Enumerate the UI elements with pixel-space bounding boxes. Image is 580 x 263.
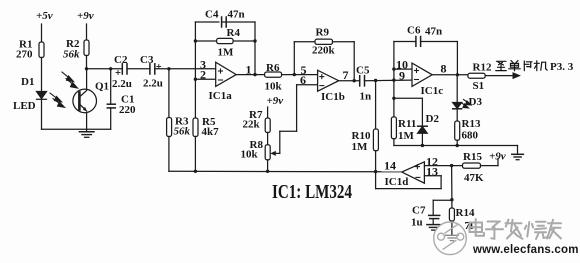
wire C6 left vertical <box>393 42 395 99</box>
label C3 value 2.2u <box>143 78 163 90</box>
label R6 10k <box>265 62 283 93</box>
svg-text:56k: 56k <box>174 126 191 138</box>
svg-text:R6: R6 <box>266 62 280 74</box>
wire pin12 down to C7/R14 <box>451 166 453 200</box>
capacitor C2 <box>122 64 127 74</box>
svg-text:R12: R12 <box>473 62 492 74</box>
pin 7 label <box>343 68 349 82</box>
wire R4 row left <box>195 40 216 42</box>
pin 14 label <box>384 159 396 173</box>
resistor R13 <box>455 121 460 140</box>
resistor R1 <box>39 42 44 58</box>
label C4 47n <box>205 9 245 21</box>
wire Q1 collector up <box>86 69 88 89</box>
wire C1 top <box>110 69 112 104</box>
wire feedback loop pin14 to pin13 <box>376 172 442 189</box>
label R15 47K <box>463 151 484 184</box>
capacitor C3 <box>150 64 155 74</box>
wire left ground rail <box>42 128 111 130</box>
LED D3 <box>453 75 462 109</box>
wm glyph 子 <box>486 222 503 239</box>
wire R9 row right <box>333 41 355 43</box>
wire D2 drop <box>421 98 423 126</box>
phototransistor Q1 <box>73 89 97 113</box>
svg-text:47K: 47K <box>464 172 484 184</box>
node junction R8 rail <box>266 170 269 173</box>
node junction R10/IC1d output <box>374 170 377 173</box>
glyph 单 <box>509 61 521 71</box>
label C5 value 1n <box>360 91 372 103</box>
label IC1: LM324 <box>272 181 352 203</box>
label R12 <box>473 62 492 74</box>
wire C6 right vertical <box>456 42 458 75</box>
svg-text:2.2u: 2.2u <box>112 78 132 90</box>
svg-text:1M: 1M <box>352 141 369 153</box>
resistor R15 <box>463 163 481 168</box>
label S1 <box>473 80 485 92</box>
wire C3 to pin3 <box>155 68 216 70</box>
node junction output/C6/D3 <box>456 73 459 76</box>
ground right <box>512 146 524 160</box>
wire main signal line <box>87 68 122 70</box>
node junction R10 tap <box>374 79 377 82</box>
label IC1a <box>209 90 233 102</box>
label IC1b <box>321 91 345 103</box>
label +9v right <box>489 151 506 163</box>
wm glyph 电 <box>470 219 485 236</box>
watermark url text <box>472 244 579 256</box>
wire R10 to bottom rail <box>375 151 377 172</box>
svg-text:D2: D2 <box>426 113 440 125</box>
wire R2 to collector node <box>86 56 88 69</box>
node junction R2/Q1 <box>85 67 88 70</box>
wire C5 to pin9 <box>365 79 413 82</box>
svg-text:www.elecfans.com: www.elecfans.com <box>472 244 579 256</box>
wire R9 right vertical <box>353 42 355 81</box>
svg-text:D3: D3 <box>469 96 483 108</box>
svg-text:+9v: +9v <box>489 151 506 163</box>
node junction pin2/feedback <box>194 78 197 81</box>
wm glyph 发 <box>506 220 523 239</box>
op-amp IC1d (points left) <box>402 162 425 183</box>
svg-text:1n: 1n <box>360 91 372 103</box>
wire R3 drop <box>168 69 170 118</box>
wm glyph 友 <box>547 220 561 239</box>
wire R5 drop from pin2 <box>194 79 196 118</box>
node +9v label <box>77 10 94 22</box>
svg-text:LED: LED <box>13 100 36 112</box>
svg-text:R4: R4 <box>227 27 241 39</box>
wire R9 left vertical <box>293 42 295 75</box>
label R2 56k <box>63 38 80 61</box>
node junction pin10/vertical <box>392 67 395 70</box>
capacitor C1 <box>107 104 115 108</box>
label R8 10k <box>241 139 264 161</box>
svg-text:1M: 1M <box>398 130 415 142</box>
label R4 value 1M <box>218 47 235 59</box>
pin 13 label <box>426 164 438 178</box>
wire IC1b output <box>339 80 360 82</box>
resistor R14 <box>449 208 454 221</box>
label R5 4k7 <box>202 116 220 138</box>
wire +5v to R1 <box>41 24 43 42</box>
wire C4 row <box>195 21 255 23</box>
wire R10 drop <box>375 81 377 130</box>
diode D2 <box>418 126 428 133</box>
svg-text:1u: 1u <box>411 217 423 229</box>
wire R6 to pin5 <box>282 74 318 76</box>
D3 light arrows <box>461 100 471 109</box>
node junction R9 right leg <box>353 79 356 82</box>
pin 10 label <box>396 58 408 72</box>
resistor R3 <box>167 118 172 137</box>
resistor R9 <box>315 39 333 44</box>
label R9 220k <box>312 27 336 57</box>
wire C6 row right <box>421 41 458 43</box>
wire +9v to R2 <box>86 24 88 40</box>
label R14 value <box>456 207 475 232</box>
svg-text:P3. 3: P3. 3 <box>550 61 574 73</box>
svg-text:D1: D1 <box>21 76 34 88</box>
wire R12 to arrow <box>485 75 513 77</box>
label R10 1M <box>352 130 371 153</box>
wire bottom rail / IC1d output line <box>169 170 402 173</box>
capacitor C4 <box>220 17 227 27</box>
label C2 <box>114 54 128 66</box>
wire R14 down <box>451 221 453 235</box>
pin 9 label <box>399 68 405 82</box>
label C2 polarity + <box>116 71 120 75</box>
wire R3 to bottom rail <box>168 137 170 172</box>
svg-text:10k: 10k <box>265 81 283 93</box>
svg-text:+9v: +9v <box>267 95 284 107</box>
svg-text:8: 8 <box>441 62 447 76</box>
resistor R10 <box>373 129 378 151</box>
svg-text:C3: C3 <box>140 54 154 66</box>
watermark text 电子发烧友 <box>470 219 562 239</box>
wire R11 to ground rail <box>393 139 395 146</box>
label C3 <box>140 54 154 66</box>
pin 1 label <box>246 63 252 77</box>
svg-text:270: 270 <box>16 49 33 61</box>
node junction R3 tap <box>167 67 170 70</box>
op-amp IC1b <box>318 70 339 91</box>
wire IC1a output <box>236 74 264 76</box>
node junction R13 rail <box>456 144 459 147</box>
svg-text:R9: R9 <box>316 27 330 39</box>
wire pin2 line <box>195 78 215 80</box>
wire R1 to D1 <box>41 58 43 92</box>
label R7 22k <box>243 109 263 131</box>
glyph 至 <box>496 61 506 70</box>
node junction D2 rail <box>421 144 424 147</box>
pin 12 label <box>426 154 438 168</box>
wire C1 bottom <box>110 108 112 129</box>
node junction output/feedback <box>253 73 256 76</box>
label C3 polarity + <box>157 65 161 69</box>
wire R13 to rail <box>456 140 458 145</box>
wire R4 row right <box>233 40 255 42</box>
label C1 220 <box>119 94 136 116</box>
pin 5 label <box>301 63 307 77</box>
pin 3 label <box>200 57 206 71</box>
capacitor C6 <box>416 37 421 47</box>
svg-text:IC1a: IC1a <box>209 90 233 102</box>
wiper arrow into R8 <box>270 151 276 156</box>
svg-text:R15: R15 <box>463 151 482 163</box>
resistor R5 <box>193 118 198 137</box>
wire C7 arm <box>433 200 452 215</box>
svg-text:IC1: LM324: IC1: LM324 <box>272 181 352 203</box>
wire D1 to ground rail <box>41 99 43 129</box>
resistor R6 <box>265 72 282 77</box>
resistor R7 <box>265 107 270 133</box>
svg-text:4k7: 4k7 <box>202 126 220 138</box>
label to-MCU Chinese text 至单片机P3. 3 <box>496 61 547 71</box>
wire feedback left vertical <box>194 22 196 79</box>
resistor R8 <box>265 145 270 160</box>
svg-text:1M: 1M <box>218 47 235 59</box>
capacitor C5 <box>360 76 365 86</box>
label IC1d <box>385 176 409 188</box>
glyph 机 <box>534 61 547 71</box>
resistor R4 <box>217 38 234 43</box>
svg-text:S1: S1 <box>473 80 485 92</box>
svg-text:56k: 56k <box>63 49 80 61</box>
pin 8 label <box>441 62 447 76</box>
label Q1 <box>95 81 109 93</box>
ground under C7 <box>427 219 440 231</box>
wire pin12 line <box>424 165 462 167</box>
svg-text:IC1d: IC1d <box>385 176 409 188</box>
label C6 47n <box>407 25 442 38</box>
node junction R4 row left <box>194 39 197 42</box>
wire pin10 line <box>394 68 412 70</box>
pin 2 label <box>200 68 206 82</box>
wm glyph 烧 <box>525 222 547 239</box>
svg-text:220k: 220k <box>312 45 336 57</box>
wire ground rail right section <box>394 145 518 147</box>
resistor R11 <box>391 117 396 139</box>
wire feedback right vertical <box>254 22 256 75</box>
svg-text:680: 680 <box>462 130 479 142</box>
watermark logo circle <box>434 222 467 255</box>
node junction R11 row <box>392 97 395 100</box>
wire R9 row left <box>294 41 315 43</box>
node junction C1 tap <box>109 67 112 70</box>
label C7 1u <box>411 205 426 229</box>
svg-text:220: 220 <box>119 104 136 116</box>
Q1 light arrows <box>62 72 78 88</box>
svg-text:14: 14 <box>384 159 396 173</box>
label D3 <box>469 96 483 108</box>
svg-text:IC1c: IC1c <box>421 85 444 97</box>
wire D2 to ground rail <box>421 133 423 145</box>
label R13 680 <box>462 118 481 142</box>
svg-text:C6: C6 <box>407 25 421 37</box>
svg-text:+9v: +9v <box>77 10 94 22</box>
svg-text:IC1b: IC1b <box>321 91 345 103</box>
output arrowhead to MCU <box>513 72 522 79</box>
svg-text:2.2u: 2.2u <box>143 78 163 90</box>
op-amp IC1a <box>216 62 237 86</box>
wire R11 drop <box>393 98 395 117</box>
node +5v label <box>36 10 53 22</box>
D1 light arrows <box>50 93 65 107</box>
label R1 270 <box>16 39 33 61</box>
wire R15 to +9v terminal <box>481 159 499 166</box>
svg-text:C7: C7 <box>412 205 426 217</box>
wire IC1c output <box>432 74 468 76</box>
svg-text:Q1: Q1 <box>95 81 109 93</box>
node junction R5 rail <box>194 170 197 173</box>
ground under Q1 <box>79 129 94 137</box>
svg-text:C5: C5 <box>356 65 370 77</box>
node junction R9 left leg <box>293 73 296 76</box>
node junction pin9/vertical <box>392 78 395 81</box>
label D2 <box>426 113 440 125</box>
label +9v above R7 <box>267 95 284 107</box>
svg-text:C2: C2 <box>114 54 128 66</box>
svg-text:22k: 22k <box>243 119 261 131</box>
label C5 <box>356 65 370 77</box>
pin 6 label <box>300 73 306 87</box>
svg-text:R13: R13 <box>462 118 481 130</box>
wire R11 row <box>394 97 423 99</box>
label C2 value 2.2u <box>112 78 132 90</box>
svg-text:9: 9 <box>399 68 405 82</box>
ground under R14 <box>446 235 459 240</box>
svg-text:47n: 47n <box>228 9 245 21</box>
wire R8 to bottom rail <box>267 160 269 171</box>
capacitor C7 <box>429 215 440 218</box>
wire R14 top <box>451 200 453 208</box>
svg-text:7: 7 <box>343 68 349 82</box>
glyph 片 <box>524 61 532 71</box>
node junction C7/R14 <box>450 198 453 201</box>
label LED <box>13 100 36 112</box>
label IC1c <box>421 85 444 97</box>
wire R5 to rail <box>194 137 196 172</box>
resistor R2 <box>84 40 89 56</box>
label R11 1M <box>398 118 416 142</box>
svg-text:10k: 10k <box>241 149 259 161</box>
node junction pin12 <box>450 164 453 167</box>
wire Q1 emitter down <box>86 113 88 130</box>
resistor R12 <box>468 73 485 78</box>
wire C6 row left <box>394 41 416 43</box>
op-amp IC1c <box>412 63 432 86</box>
wire C2 to C3 <box>127 68 150 70</box>
label P3. 3 <box>550 61 574 73</box>
svg-text:R11: R11 <box>398 118 416 130</box>
svg-text:R14: R14 <box>456 207 475 219</box>
svg-text:+5v: +5v <box>36 10 53 22</box>
wire R7 to R8 <box>267 133 269 145</box>
label D1 <box>21 76 34 88</box>
svg-text:47n: 47n <box>425 26 442 38</box>
svg-text:C4: C4 <box>205 9 219 21</box>
wire pin6 stair down <box>273 85 297 154</box>
LED D1 <box>37 92 47 100</box>
node junction R4 row right <box>253 39 256 42</box>
label R3 56k <box>174 116 191 138</box>
wire pin6 line <box>297 84 318 86</box>
wire D3 to R13 <box>456 109 458 121</box>
label R4 <box>227 27 241 39</box>
